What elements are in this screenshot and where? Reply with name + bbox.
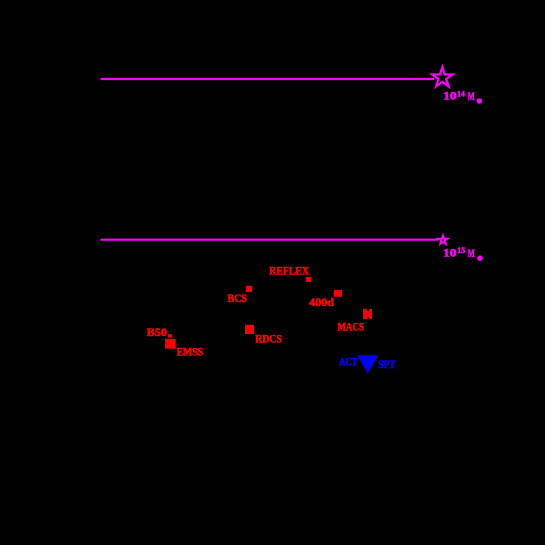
svg-text:MACS: MACS — [337, 320, 364, 334]
marker: REFLEX square — [306, 277, 311, 282]
curve: 10^15 Msun flux line — [101, 239, 439, 241]
svg-text:15: 15 — [457, 246, 465, 255]
svg-text:M: M — [468, 246, 475, 260]
svg-text:SPT: SPT — [378, 357, 395, 371]
label: 10^15 Msun — [443, 246, 483, 262]
svg-text:REFLEX: REFLEX — [269, 264, 309, 278]
svg-text:BCS: BCS — [228, 291, 248, 305]
marker: BCS square — [246, 286, 252, 292]
curve: 10^14 Msun flux line — [101, 78, 435, 80]
marker: RDCS square — [245, 325, 254, 334]
svg-text:EMSS: EMSS — [177, 345, 204, 359]
marker: 400d square — [334, 290, 342, 297]
svg-text:M: M — [468, 89, 475, 103]
svg-text:RDCS: RDCS — [255, 332, 282, 346]
marker: SZ survey triangle — [357, 355, 378, 373]
marker: B50 small square — [168, 334, 172, 337]
marker: small open star (10^15 Msun) — [439, 235, 448, 244]
svg-text:B50: B50 — [147, 325, 167, 339]
marker: MACS squares pair — [363, 309, 372, 319]
svg-text:10: 10 — [443, 89, 456, 103]
svg-text:14: 14 — [457, 89, 465, 98]
marker: EMSS square — [165, 339, 176, 349]
svg-text:10: 10 — [443, 246, 456, 260]
label: 10^14 Msun — [443, 89, 482, 104]
svg-text:ACT: ACT — [339, 355, 357, 369]
svg-text:400d: 400d — [309, 295, 334, 309]
marker: big open star (10^14 Msun) — [432, 67, 452, 86]
